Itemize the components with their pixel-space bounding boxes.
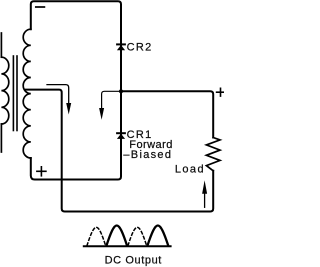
current arrow at center-tap return [47,85,71,115]
current arrow through load (up) [202,180,207,207]
wire: main vertical through CR2, junction, CR1, down and left to secondary bottom terminal [31,42,121,180]
label plus polarity near secondary bottom [37,167,46,176]
DC output waveform baseline [84,245,171,247]
wire: junction to load top [121,91,213,137]
svg-text:CR2: CR2 [127,41,153,53]
wire: secondary top terminal + top rail to CR2 anode branch [31,1,121,42]
diode CR1 [117,133,125,139]
transformer T1 secondary winding [23,29,31,158]
junction node: CR2 cathode / CR1 anode / load tap [119,89,123,93]
waveform solid half-sine pulse 2 [107,225,128,245]
wire: load bottom, bottom rail, up to center tap [26,90,214,212]
transformer core [13,56,17,131]
resistor Load [206,138,220,171]
waveform dashed half-sine pulse 3 [128,227,147,245]
waveform solid half-sine pulse 4 [148,225,169,245]
svg-text:–Biased: –Biased [123,149,172,161]
label minus polarity on top rail [36,6,45,8]
label plus polarity at load top [217,88,225,96]
waveform dashed half-sine pulse 1 [87,227,106,245]
current arrow at junction into CR1 [99,91,120,120]
transformer T1 primary winding [1,33,8,152]
svg-text:Load: Load [175,163,205,175]
svg-text:DC Output: DC Output [105,255,162,267]
diode CR2 [117,44,125,50]
